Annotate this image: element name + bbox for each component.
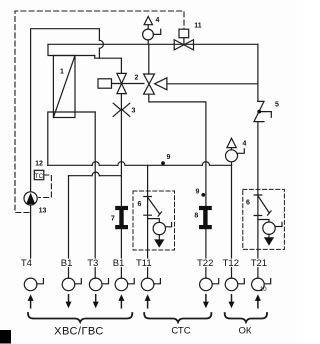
svg-text:4: 4: [156, 17, 160, 24]
svg-text:10: 10: [260, 287, 267, 293]
svg-text:6: 6: [138, 201, 142, 208]
svg-text:5: 5: [275, 102, 279, 109]
svg-text:6: 6: [246, 200, 250, 207]
svg-text:ОК: ОК: [239, 326, 252, 337]
svg-text:8: 8: [194, 213, 198, 220]
svg-text:9: 9: [167, 154, 171, 161]
svg-text:СТС: СТС: [171, 326, 190, 337]
svg-text:B1: B1: [61, 258, 73, 269]
svg-text:11: 11: [194, 23, 202, 30]
svg-text:TC: TC: [35, 173, 44, 180]
svg-text:12: 12: [35, 161, 43, 168]
svg-text:T3: T3: [87, 258, 98, 269]
svg-text:T12: T12: [223, 258, 239, 269]
svg-text:7: 7: [111, 216, 115, 223]
svg-text:2: 2: [135, 75, 139, 82]
svg-text:T11: T11: [136, 258, 152, 269]
svg-text:3: 3: [132, 108, 136, 115]
svg-text:ХВС/ГВС: ХВС/ГВС: [54, 326, 104, 338]
svg-text:B1: B1: [113, 258, 125, 269]
svg-text:4: 4: [243, 141, 247, 148]
svg-text:13: 13: [39, 208, 47, 215]
svg-text:T4: T4: [21, 258, 32, 269]
svg-text:T22: T22: [197, 258, 213, 269]
svg-text:9: 9: [196, 189, 200, 196]
svg-text:1: 1: [60, 69, 64, 76]
svg-text:T21: T21: [251, 258, 267, 269]
